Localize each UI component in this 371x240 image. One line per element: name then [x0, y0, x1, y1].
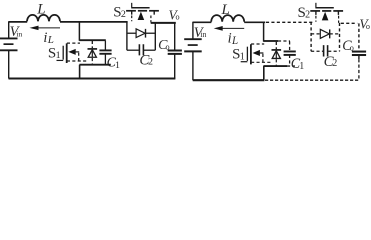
svg-text:2: 2: [148, 57, 153, 68]
diode D2': [311, 33, 320, 35]
wire S1 module top bar solid part': [263, 40, 278, 42]
wire top rail (inductor to S1 junction)': [244, 21, 265, 23]
wire S1 drain drop: [78, 21, 80, 40]
wire bottom rail: [9, 78, 176, 80]
transistor S2: [131, 3, 133, 8]
transistor S1': [241, 61, 248, 63]
wire output rail: [151, 22, 176, 24]
wire top-left corner segment: [9, 21, 28, 23]
transistor S2': [315, 3, 317, 8]
svg-text:o: o: [166, 42, 170, 51]
current arrow iL': [221, 27, 245, 29]
transistor S1: [57, 59, 64, 61]
wire S1 module bottom bar dashed part': [287, 65, 295, 67]
svg-text:1: 1: [299, 61, 304, 72]
svg-text:1: 1: [115, 60, 120, 71]
current arrow iL: [37, 27, 61, 29]
node B vertical wire': [339, 23, 341, 51]
wire S1 module bottom bar solid part': [263, 65, 287, 67]
svg-text:in: in: [16, 30, 22, 39]
inductor L: [27, 15, 60, 22]
capacitor Co: [174, 23, 176, 50]
wire S1 module bottom bar: [79, 64, 110, 66]
svg-text:1: 1: [56, 50, 61, 61]
wire output rail dashed': [341, 22, 357, 24]
svg-text:o: o: [350, 43, 354, 52]
voltage source Vin: [0, 37, 18, 39]
wire S1 source drop to bottom rail: [79, 65, 81, 79]
voltage source Vin': [184, 38, 202, 40]
svg-text:o: o: [366, 22, 370, 31]
diode D1: [91, 41, 93, 48]
wire S1 drain drop': [263, 22, 265, 42]
wire bottom rail dashed part': [265, 79, 359, 81]
svg-text:2: 2: [332, 58, 337, 69]
wire S1 source drop to bottom rail': [263, 66, 265, 80]
svg-text:2: 2: [305, 9, 310, 20]
capacitor C2: [127, 49, 139, 51]
node A vertical wire: [126, 22, 128, 51]
wire bottom rail solid part': [193, 79, 265, 81]
wire Vin bottom lead': [192, 51, 194, 80]
svg-text:L: L: [36, 2, 45, 18]
capacitor Co': [358, 23, 360, 51]
node B vertical wire: [154, 23, 156, 51]
svg-text:L: L: [231, 35, 238, 47]
wire Vin bottom lead: [8, 50, 10, 78]
diode D1': [275, 42, 277, 50]
svg-text:L: L: [221, 2, 230, 18]
svg-text:2: 2: [121, 9, 126, 20]
diode D2: [127, 32, 136, 34]
wire S1 module top bar: [79, 39, 105, 41]
node A vertical wire': [310, 22, 312, 51]
wire Vin top lead': [192, 22, 194, 39]
inductor L': [211, 15, 244, 22]
svg-text:in: in: [200, 30, 206, 39]
wire Vin top lead: [8, 21, 10, 38]
wire top-left corner segment': [193, 21, 212, 23]
svg-text:L: L: [47, 34, 54, 46]
wire top rail dashed (junction to node A)': [266, 21, 313, 23]
svg-text:o: o: [175, 13, 179, 22]
capacitor C2': [311, 50, 323, 52]
capacitor C1': [289, 41, 291, 51]
svg-text:1: 1: [240, 51, 245, 62]
wire S1 module top bar dashed part': [278, 40, 290, 42]
wire top rail (inductor to node A): [60, 21, 128, 23]
capacitor C1: [104, 41, 106, 51]
